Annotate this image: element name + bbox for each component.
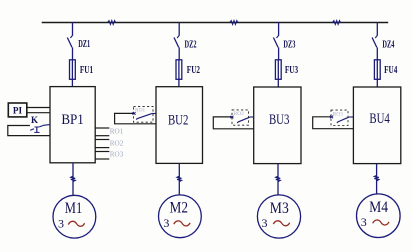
contact RO2: [230, 116, 253, 123]
svg-text:DZ1: DZ1: [78, 39, 90, 50]
pump box BU2: [156, 87, 203, 164]
wire: PI to BP1 lower: [27, 112, 50, 114]
breaker DZ3: [273, 35, 295, 59]
svg-text:K: K: [31, 115, 38, 125]
inverter box BP1: [50, 87, 95, 163]
contact K label: [31, 115, 38, 125]
cable squiggle M4: [374, 175, 378, 180]
motor M4: [357, 194, 401, 238]
fuse FU1: [70, 60, 94, 87]
wire: BU4 to motor M4: [376, 164, 378, 195]
svg-text:FU2: FU2: [187, 65, 200, 76]
wire: branch 4 drop from bus: [376, 22, 378, 36]
wire loop into BU4: [313, 117, 354, 129]
wire: PI to BP1 upper: [27, 107, 50, 109]
wire break squiggle 1 on bus: [108, 21, 116, 25]
svg-text:M1: M1: [65, 200, 83, 217]
svg-text:M4: M4: [369, 199, 388, 216]
dashed enclosure RO2: [232, 110, 249, 125]
label RO3: [110, 150, 124, 159]
BP1 output stub RO1-a: [95, 127, 109, 129]
motor M2: [159, 195, 202, 238]
svg-text:BP1: BP1: [61, 112, 84, 128]
contact RO3: [330, 116, 353, 123]
svg-text:BU4: BU4: [369, 111, 390, 127]
svg-text:FU1: FU1: [80, 65, 93, 76]
cable squiggle M1: [71, 176, 75, 181]
wire: BU2 to motor M2: [178, 163, 180, 195]
svg-text:RO1: RO1: [110, 126, 124, 135]
wire loop for contact K: [8, 126, 50, 136]
label RO2: [110, 138, 124, 147]
svg-text:DZ2: DZ2: [185, 39, 197, 50]
pump box BU3: [254, 87, 301, 164]
svg-text:RO2: RO2: [234, 111, 244, 117]
wire: BP1 to motor M1: [72, 163, 74, 196]
svg-text:3: 3: [58, 216, 64, 230]
BP1 output stub RO3-b: [95, 158, 109, 160]
breaker DZ1: [67, 35, 90, 59]
label RO1: [110, 126, 124, 135]
svg-text:BU3: BU3: [269, 112, 290, 128]
wire: branch 2 drop from bus: [178, 22, 180, 36]
BP1 output stub RO2-a: [95, 139, 109, 141]
fuse FU2: [176, 60, 200, 87]
wire: BU3 to motor M3: [277, 164, 279, 196]
wire loop into BU3: [213, 117, 253, 129]
dashed enclosure RO1: [134, 106, 154, 122]
breaker DZ2: [174, 35, 197, 59]
svg-text:DZ4: DZ4: [382, 39, 394, 50]
fuse FU4: [374, 60, 397, 87]
cable squiggle M2: [177, 176, 181, 181]
svg-text:3: 3: [262, 216, 268, 230]
svg-text:FU4: FU4: [384, 65, 397, 76]
dashed enclosure RO3: [331, 110, 348, 125]
pump box BU4: [353, 87, 400, 164]
svg-text:RO3: RO3: [110, 150, 124, 159]
svg-text:3: 3: [361, 215, 367, 229]
svg-text:M3: M3: [270, 200, 289, 217]
wire break squiggle 2 on bus: [230, 21, 238, 25]
svg-text:RO3: RO3: [333, 111, 343, 117]
contact RO1: [133, 112, 157, 119]
BP1 output stub RO3-a: [95, 151, 109, 153]
svg-text:RO1: RO1: [135, 108, 145, 114]
motor M3: [257, 195, 300, 238]
BP1 output stub RO1-b: [95, 135, 109, 137]
breaker DZ4: [372, 35, 394, 59]
wire: main supply bus: [42, 22, 389, 24]
svg-text:M2: M2: [170, 200, 189, 217]
wire: branch 1 drop from bus: [72, 22, 74, 36]
motor M1: [53, 195, 96, 238]
controller box PI: [8, 103, 27, 117]
svg-text:FU3: FU3: [285, 65, 298, 76]
wire loop into BU2: [115, 113, 156, 123]
svg-text:BU2: BU2: [168, 113, 189, 129]
svg-text:RO2: RO2: [110, 138, 124, 147]
cable squiggle M3: [276, 176, 280, 181]
BP1 output stub RO2-b: [95, 147, 109, 149]
wire break squiggle 3 on bus: [333, 21, 341, 25]
svg-text:3: 3: [163, 216, 169, 230]
svg-text:DZ3: DZ3: [283, 39, 295, 50]
fuse FU3: [275, 60, 298, 87]
wire: branch 3 drop from bus: [278, 22, 280, 36]
svg-text:PI: PI: [13, 106, 23, 116]
contact K: [30, 125, 50, 133]
